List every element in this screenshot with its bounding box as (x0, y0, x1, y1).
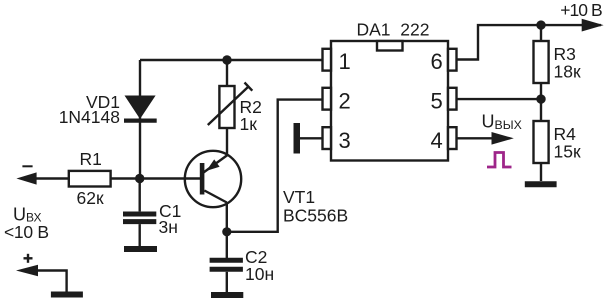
wire node to pin 2 (227, 100, 323, 232)
node junction R3/R4/pin5 (536, 94, 545, 103)
svg-text:R1: R1 (80, 149, 102, 169)
wire pin 5 to node (457, 98, 542, 100)
resistor R1 (69, 171, 111, 187)
svg-text:62к: 62к (77, 188, 104, 208)
svg-text:UВЫХ: UВЫХ (482, 112, 522, 132)
pin 1 (323, 49, 351, 74)
pin 5 (431, 88, 457, 114)
wire R2 top (226, 60, 228, 86)
wire C1 to ground (138, 224, 140, 246)
svg-text:10н: 10н (245, 264, 274, 284)
arrow Uout (492, 132, 514, 145)
pin 6 (431, 49, 457, 74)
svg-text:<10 В: <10 В (4, 222, 49, 242)
resistor R2 variable (208, 83, 253, 129)
diode VD1 (124, 96, 157, 121)
svg-text:3: 3 (339, 128, 351, 153)
node junction top wire / R2 (222, 55, 231, 64)
svg-text:VT1: VT1 (283, 187, 315, 207)
wire pin 4 output (457, 137, 493, 139)
svg-text:18к: 18к (554, 62, 581, 82)
wire R3 top (540, 25, 542, 41)
wire collector down to node (226, 203, 228, 232)
svg-text:15к: 15к (554, 141, 581, 161)
svg-text:6: 6 (431, 49, 443, 74)
label minus sign (22, 165, 32, 167)
wire R2 bottom to emitter (226, 128, 228, 155)
terminal bar pin 3 (294, 123, 301, 154)
ground C1 (124, 246, 157, 252)
svg-text:3н: 3н (159, 217, 178, 237)
wire top-left horizontal from VD1 top to pin 1 (140, 59, 323, 61)
ground R4 (525, 181, 557, 187)
capacitor C1 (123, 214, 156, 222)
ground input (51, 292, 83, 298)
svg-text:1: 1 (339, 49, 351, 74)
wire C2 to ground (226, 272, 228, 292)
wire R1 right to transistor base (111, 177, 200, 179)
arrow input plus terminal (16, 265, 38, 277)
svg-text:+10 В: +10 В (560, 0, 603, 20)
node junction collector/C2 (222, 227, 231, 236)
resistor R3 (534, 41, 549, 83)
pin 3 (323, 127, 351, 153)
op-amp U1 (IC DA1 body) (331, 41, 448, 161)
wire R3 bottom to R4 top (540, 83, 542, 121)
notch mark on IC (377, 41, 403, 51)
resistor R4 (534, 121, 549, 163)
waveform pulse symbol (487, 153, 512, 168)
wire plus terminal to ground (30, 271, 67, 292)
wire R4 bottom (540, 163, 542, 181)
wire input left segment (34, 177, 69, 179)
ground C2 (211, 292, 243, 298)
label plus sign (24, 254, 33, 263)
svg-text:2: 2 (339, 89, 351, 114)
svg-text:1N4148: 1N4148 (59, 107, 120, 127)
svg-text:4: 4 (431, 128, 443, 153)
node junction R1/VD1/C1 (135, 174, 144, 183)
svg-text:5: 5 (431, 89, 443, 114)
wire junction to C1 (138, 179, 140, 212)
svg-text:DA1 222: DA1 222 (357, 19, 430, 39)
pin 4 (431, 127, 457, 153)
wire pin 3 (300, 137, 323, 139)
node junction +10V/R3 (536, 20, 545, 29)
pin 2 (323, 88, 351, 114)
arrow +10V (582, 19, 604, 32)
transistor VT1 (185, 151, 241, 207)
wire pin 6 to +10V rail (457, 25, 602, 59)
svg-text:1к: 1к (240, 114, 258, 134)
capacitor C2 (210, 260, 243, 269)
svg-text:BC556B: BC556B (283, 206, 348, 226)
arrow input minus terminal (16, 172, 36, 184)
wire node to C2 (226, 232, 228, 258)
wire VD1 branch vertical (139, 60, 141, 179)
